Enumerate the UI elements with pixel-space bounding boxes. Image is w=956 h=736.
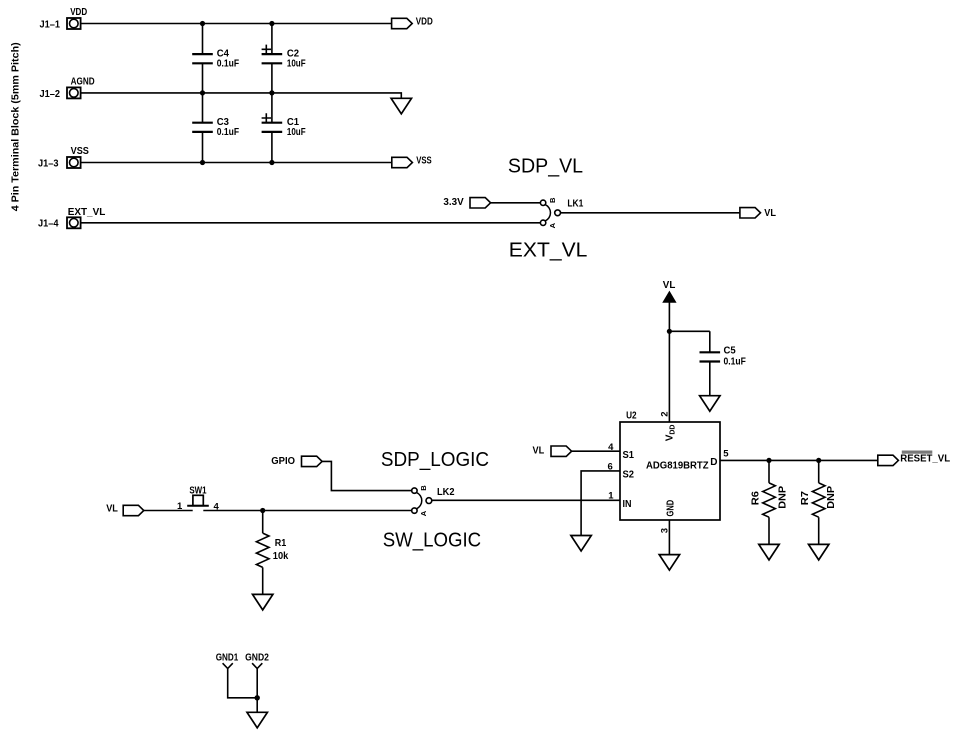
svg-text:LK2: LK2 [437,487,455,498]
svg-text:SW_LOGIC: SW_LOGIC [383,528,482,551]
svg-text:4: 4 [214,501,220,512]
svg-text:C5: C5 [724,346,737,357]
svg-text:5: 5 [723,449,729,460]
svg-text:IN: IN [623,499,632,510]
svg-text:VDD: VDD [70,7,87,18]
svg-text:4 Pin Terminal Block (5mm Pitc: 4 Pin Terminal Block (5mm Pitch) [11,42,22,211]
svg-text:ADG819BRTZ: ADG819BRTZ [646,461,709,472]
svg-text:VDD: VDD [665,425,677,442]
svg-text:3: 3 [659,528,670,533]
svg-text:10uF: 10uF [287,127,306,138]
svg-text:SW1: SW1 [189,485,207,496]
svg-text:EXT_VL: EXT_VL [68,207,106,218]
svg-text:J1–4: J1–4 [38,219,59,230]
svg-text:GND1: GND1 [216,653,239,664]
svg-text:J1–3: J1–3 [38,158,59,169]
svg-text:B: B [419,485,428,491]
svg-text:VL: VL [663,280,676,291]
svg-text:0.1uF: 0.1uF [217,127,239,138]
svg-text:VL: VL [533,445,545,456]
svg-text:1: 1 [608,490,614,501]
svg-text:6: 6 [608,462,613,473]
svg-text:GND2: GND2 [245,653,269,664]
svg-text:A: A [548,222,557,228]
svg-text:AGND: AGND [71,76,95,87]
svg-text:RESET_VL: RESET_VL [900,453,950,464]
svg-text:0.1uF: 0.1uF [217,59,239,70]
svg-text:D: D [710,457,717,468]
svg-text:R7: R7 [800,491,811,506]
svg-text:EXT_VL: EXT_VL [509,239,588,262]
svg-text:3.3V: 3.3V [443,197,464,208]
svg-text:0.1uF: 0.1uF [724,356,746,367]
svg-text:4: 4 [608,442,614,453]
svg-text:A: A [419,510,428,516]
svg-text:DNP: DNP [777,486,788,509]
svg-text:J1–2: J1–2 [40,89,61,100]
svg-text:GND: GND [666,500,677,517]
svg-text:VL: VL [106,503,118,514]
svg-text:VDD: VDD [416,17,433,28]
svg-text:2: 2 [659,412,670,417]
svg-text:S2: S2 [623,469,635,480]
svg-text:S1: S1 [623,450,635,461]
svg-text:LK1: LK1 [567,198,583,209]
svg-text:U2: U2 [626,411,637,422]
svg-text:B: B [548,197,557,203]
svg-text:DNP: DNP [826,486,837,509]
svg-text:GPIO: GPIO [271,456,295,467]
svg-text:VL: VL [764,208,776,219]
svg-text:VSS: VSS [416,156,432,167]
svg-text:SDP_VL: SDP_VL [508,155,583,178]
svg-text:10k: 10k [273,551,289,562]
svg-text:VSS: VSS [71,146,90,157]
svg-text:J1–1: J1–1 [40,19,61,30]
svg-text:10uF: 10uF [287,59,306,70]
svg-text:1: 1 [177,501,183,512]
svg-text:R6: R6 [751,491,762,506]
svg-text:R1: R1 [275,538,287,549]
svg-text:SDP_LOGIC: SDP_LOGIC [381,448,489,471]
